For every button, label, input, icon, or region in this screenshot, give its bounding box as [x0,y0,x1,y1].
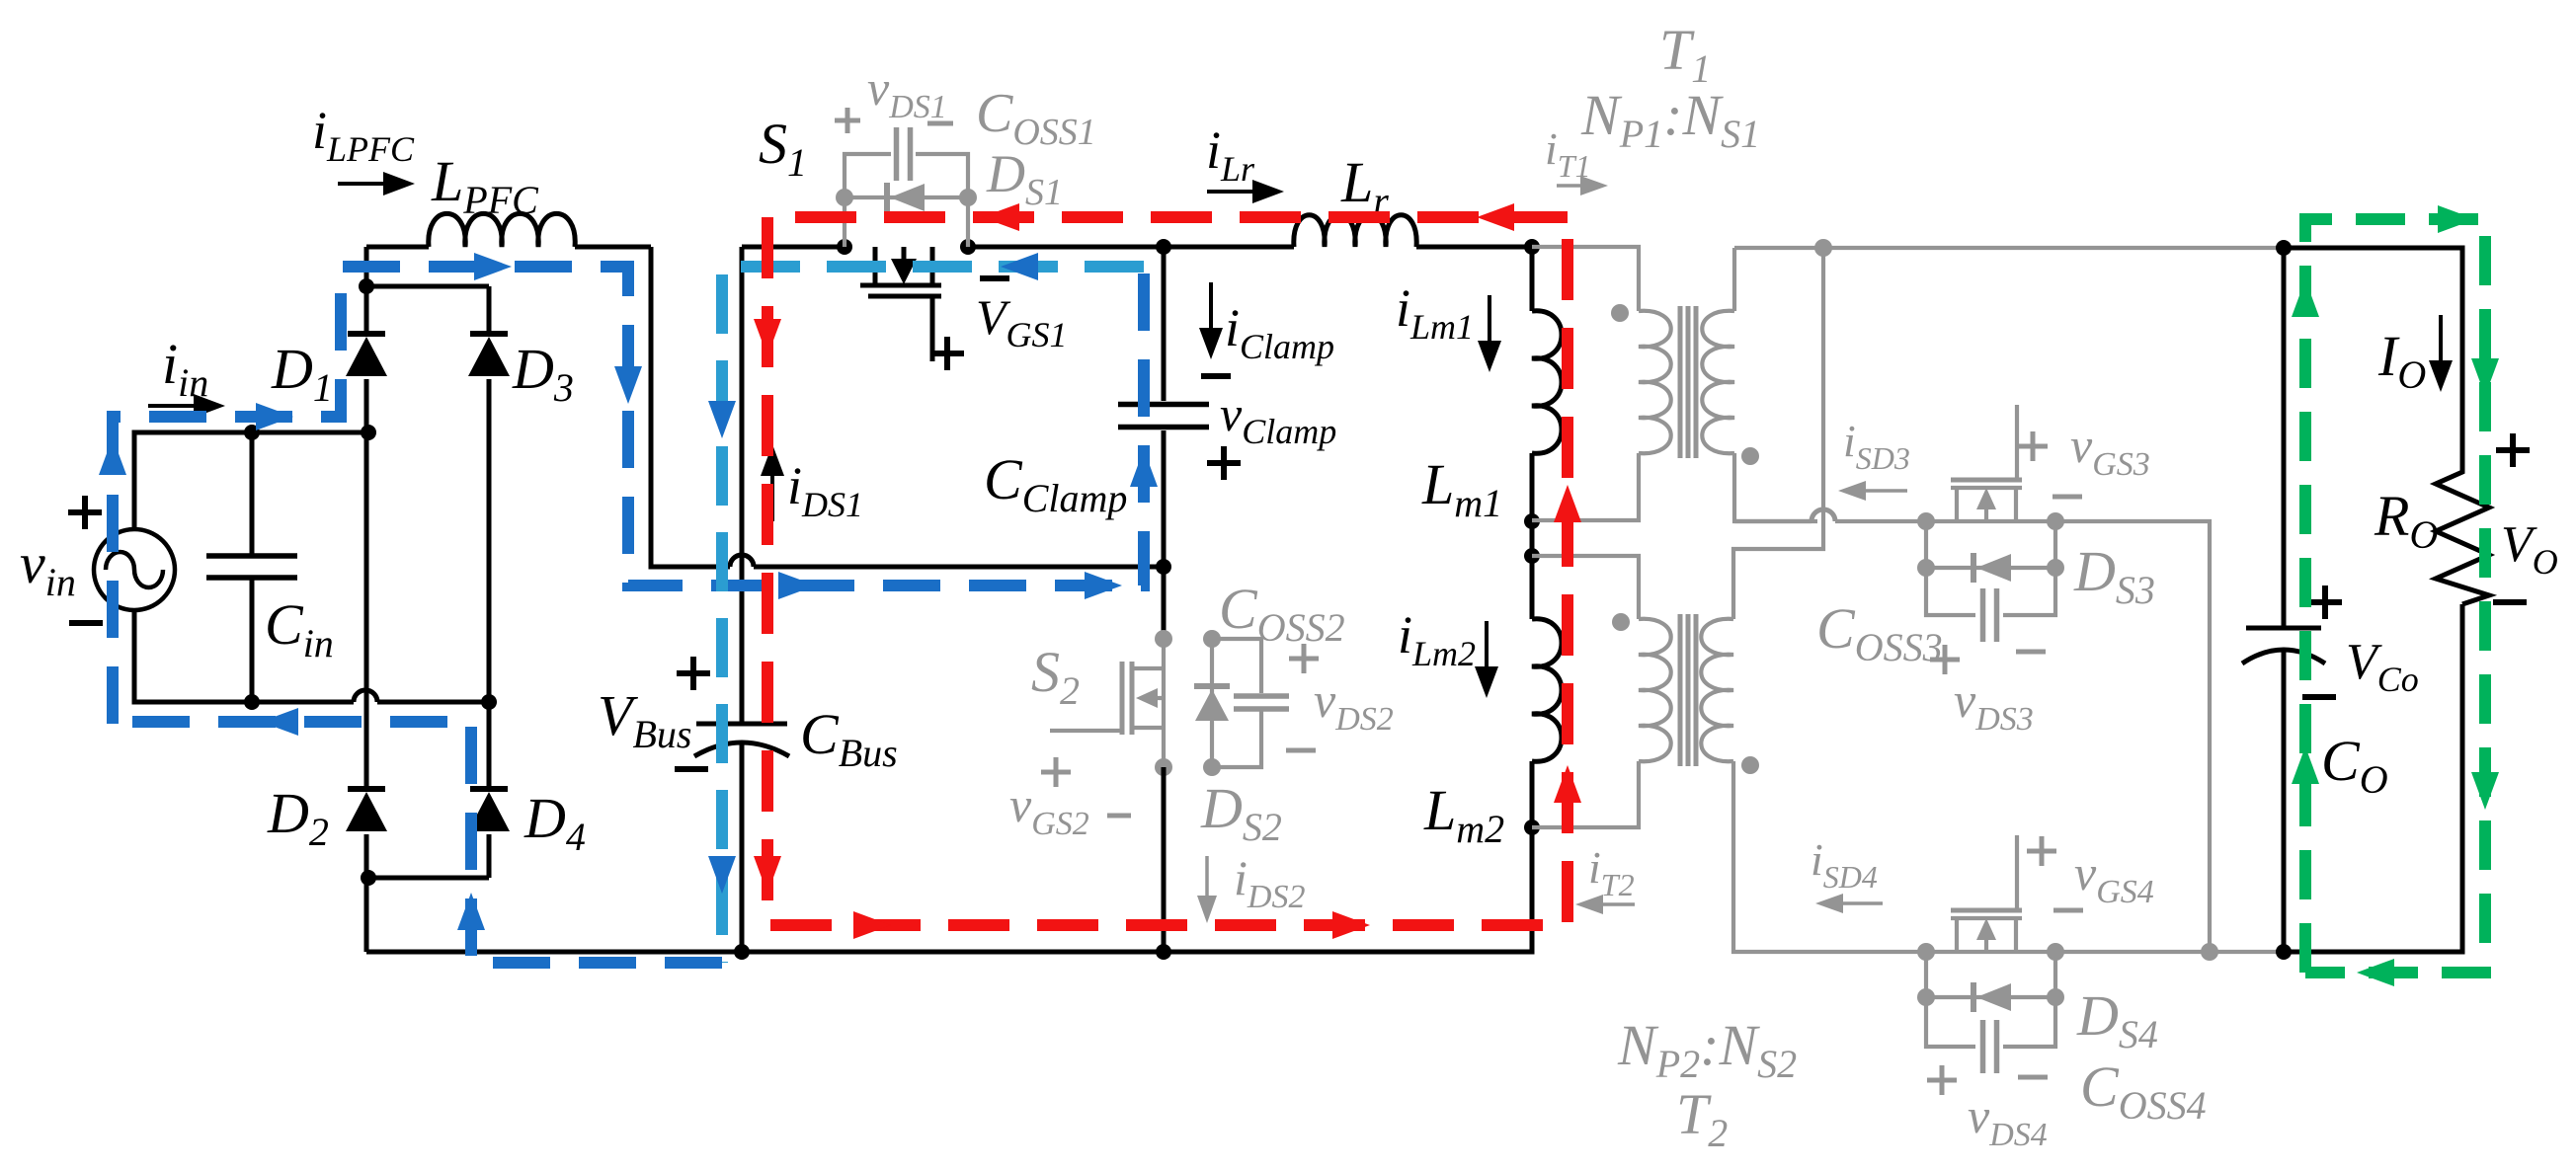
minus sign of vGS3 [2053,495,2082,500]
junction dot Cin top [244,425,260,440]
plus sign of VGS1 [930,337,964,370]
label DS4 [2076,983,2158,1056]
label vin [20,531,76,604]
junction dot Lm2 bottom [1524,820,1540,835]
label VBus [598,683,691,756]
current arrow iT2 [1575,895,1635,914]
junction dot DS2 bottom [1203,758,1221,776]
label NP2:NS2 [1617,1013,1797,1086]
current arrow iDS1 [761,444,784,521]
label iLm2 [1398,605,1476,673]
diode DS2 [1194,639,1230,767]
current arrow iSD3 [1838,481,1907,501]
junction dot DS4 left [1917,988,1935,1006]
wire Lm1 to Lm2 [1530,521,1535,556]
label S1 [759,112,807,185]
label iT1 [1545,123,1591,184]
minus sign of VBus [675,766,708,772]
minus sign of vDS1 [927,121,953,126]
wire vin top to bridge node A [134,432,368,529]
junction dot output top [2276,240,2292,256]
plus sign of vDS4 [1927,1065,1957,1095]
junction dot Lm1 bottom [1524,513,1540,529]
minus sign of vDS3 [2016,650,2046,655]
minus sign of vDS2 [1286,748,1316,753]
current arrow iLm1 [1478,295,1501,372]
junction dot bridge top rail [359,278,374,294]
blue arrow down along CBus lower [708,856,736,894]
wire output top to Ro [2284,248,2462,462]
junction dot S1 drain [837,239,852,255]
label vDS3 [1954,672,2034,738]
wire T2 secondary top [1733,248,1823,619]
label VGS1 [976,289,1068,354]
label COSS2 [1219,577,1345,650]
junction dot Lr to Lm1 [1524,239,1540,255]
label Co [2321,729,2388,802]
junction dot S4 left [1917,943,1935,961]
polarity dot T2 primary [1612,613,1630,631]
label COSS4 [2080,1054,2207,1128]
diode DS4 [1926,952,2055,1012]
plus sign of vGS3 [2018,431,2048,461]
capacitor Cin [206,432,297,702]
red arrow right on bottom rail [853,911,891,939]
label vGS2 [1009,777,1089,842]
junction dot CBus bottom [734,944,750,960]
label Ro [2374,484,2438,557]
inductor Lr [1164,215,1532,247]
red arrow left near S1 [982,203,1019,231]
minus sign of Vo [2493,599,2527,605]
green arrow up at Co bottom [2292,746,2319,784]
current arrow iLPFC [338,172,415,195]
junction dot rectifier bus bottom [2201,943,2218,961]
junction dot bottom rail at CClamp branch [1156,944,1171,960]
label Cin [265,592,334,665]
blue current path (through S1 down CBus) [722,267,1144,963]
wire vin bottom to node B (hops over D1-D2 branch) [134,610,489,702]
inductor Lm1 [1532,247,1562,521]
junction dot DS3 right [2047,559,2064,577]
label Io [2377,324,2426,397]
label D2 [267,781,329,854]
red arrow down after S1 [754,319,781,356]
wire DS1 connections [845,197,968,247]
plus sign of VCo [2308,585,2342,619]
label LPFC [431,149,539,222]
junction dot node B (vin-, D3/D4) [481,694,497,710]
label T2 [1676,1082,1728,1155]
inductor Lm2 [1532,556,1562,827]
red current path (resonant loop) [767,217,1568,925]
junction dot S2 drain [1155,630,1172,648]
capacitor COSS4 [1926,997,2055,1073]
green current path (output loop) [2305,219,2485,973]
minus sign of VGS1 [980,275,1009,281]
current arrow iDS2 [1197,856,1217,923]
junction dot S2 source [1155,758,1172,776]
diode D4 [468,702,510,878]
junction dot S4 right [2047,943,2064,961]
label DS1 [986,144,1063,213]
minus sign of vGS4 [2053,908,2083,913]
label vGS3 [2070,418,2150,483]
label D4 [523,786,586,859]
junction dot D2 bottom [361,870,376,886]
transformer T2 primary winding [1532,556,1671,827]
wire S4 row [1926,950,2055,954]
label T1 [1659,18,1711,91]
current arrow iLm2 [1475,621,1498,698]
junction dot CClamp top [1156,239,1171,255]
polarity dot T1 primary [1611,304,1629,322]
minus sign of vDS4 [2018,1075,2048,1080]
current arrow iT1 [1557,176,1608,195]
junction dot secondary top [1814,239,1832,257]
blue arrow left through S1 [1001,253,1038,280]
label COSS1 [976,83,1096,153]
capacitor COSS3 [1926,568,2055,642]
wire S3 row (hops over T2 feed) [1734,509,1926,521]
blue arrow down after LPFC [614,366,642,404]
diode DS1 [887,183,925,212]
capacitor COSS2 [1212,639,1289,767]
junction dot DS4 right [2047,988,2064,1006]
capacitor COSS1 [845,127,968,197]
transformer T1 core [1680,306,1696,458]
plus sign of Vo [2496,433,2530,467]
wire S1 drain side [742,245,845,250]
diode D2 [346,432,387,878]
label vClamp [1220,386,1336,451]
label iSD4 [1811,834,1878,895]
junction dot output bottom [2276,944,2292,960]
polarity dot T2 secondary [1741,756,1759,774]
wire Lm2 bottom to rail [1526,827,1532,952]
wire bridge top rail [366,284,489,289]
junction dot DS2 top [1203,630,1221,648]
minus sign of VCo [2302,694,2336,700]
wire D2/D4 bottoms join [366,876,489,881]
label iClamp [1225,298,1334,366]
junction dot node A (vin+, D1/D2) [361,425,376,440]
junction dot Cin bottom [244,694,260,710]
plus sign of vGS2 [1041,757,1071,787]
blue arrow right above LPFC [474,253,512,280]
label Vo [2501,516,2558,582]
label DS3 [2073,539,2155,612]
red arrow left near Lr [1477,203,1514,231]
transistor S1 (MOSFET) [860,247,941,361]
red arrow up along Lm2 [1554,765,1581,803]
junction dot S3 left [1917,512,1935,530]
transformer T1 primary winding [1532,247,1671,520]
green arrow left on bottom [2357,959,2394,986]
minus sign of vin [69,620,103,626]
capacitor Co [2242,248,2325,952]
label NP1:NS1 [1580,83,1760,156]
label vDS1 [867,60,947,125]
red arrow right before Lm2 [1332,911,1370,939]
junction dot S1 source [960,239,976,255]
blue arrow up along CClamp [1130,449,1158,487]
minus sign of iClamp [1201,373,1231,379]
minus sign of vGS2 [1107,814,1131,819]
label D1 [271,337,333,410]
wire S2 to bottom rail [1162,767,1167,952]
wire T1 secondary to output+ [1734,246,2284,250]
plus sign of vin [68,496,102,529]
plus sign of vDS1 [835,108,860,133]
transformer T1 secondary winding [1702,248,1817,521]
current arrow iSD4 [1815,894,1883,913]
junction dot DS3 left [1917,559,1935,577]
wire S3 to output rectifier bus [2055,521,2210,952]
wire bottom rail [366,950,1532,955]
transformer T2 core [1680,614,1696,766]
blue arrow right near vin [256,403,293,430]
junction dot S3 right [2047,512,2064,530]
blue arrow left on D2 row [261,708,298,736]
transistor S4 (MOSFET) [1951,835,2022,952]
diode D1 [346,286,387,432]
wire S1 source to CClamp [968,245,1164,250]
label vDS4 [1968,1088,2048,1153]
blue arrow up at vin [99,437,126,475]
wire LPFC to switch node (hops over CBus branch) [651,247,1165,567]
plus sign of VBus [677,657,710,690]
label CClamp [984,447,1127,520]
label vDS2 [1314,672,1394,738]
label COSS3 [1816,596,1943,669]
capacitor CBus [694,247,789,952]
plus sign of vDS3 [1930,645,1960,674]
junction dot Lm2 top [1524,548,1540,564]
wire CClamp to S2 [1162,567,1167,640]
transformer T2 secondary winding [1701,619,1926,952]
blue current path (return via D4) [113,722,722,963]
diode DS3 [1926,521,2055,583]
junction dot DS1 left [836,189,853,206]
plus sign of vClamp [1207,446,1241,480]
blue arrow right before clamp [1085,572,1122,599]
blue arrow down along CBus upper [708,401,736,438]
green arrow right on top [2438,205,2475,233]
wire S4 to output bus [2055,950,2282,954]
blue arrow right on switch feed [778,572,816,599]
label iLPFC [312,101,415,169]
green arrow down to Ro [2471,358,2499,396]
current arrow Io [2429,315,2453,392]
label iin [162,332,208,405]
transistor S2 (MOSFET) [1050,639,1164,767]
current arrow iLr [1207,180,1284,203]
polarity dot T1 secondary [1741,447,1759,465]
wire Ro to output bottom [2284,604,2462,952]
label VCo [2346,634,2419,699]
green arrow down after Ro [2471,772,2499,810]
blue arrow up through D4 [457,893,485,930]
label S2 [1031,640,1080,713]
label vGS4 [2074,845,2154,910]
inductor LPFC [366,213,651,286]
junction dot switch node [1156,559,1171,575]
label iLm1 [1396,278,1474,347]
label iDS2 [1234,850,1305,915]
label D3 [512,337,574,410]
plus sign of vDS2 [1289,644,1319,673]
capacitor CClamp [1118,247,1209,567]
label CBus [800,702,898,775]
label Lm1 [1421,452,1502,525]
transistor S3 (MOSFET) [1926,405,2055,521]
red arrow down near CBus bottom [754,856,781,894]
wire bridge to bottom rail [364,878,369,952]
label DS2 [1200,776,1282,849]
label Lr [1340,150,1389,223]
label iSD3 [1843,416,1910,476]
diode D3 [468,286,510,702]
label iLr [1206,120,1255,189]
current arrow iin [148,394,225,418]
label iT2 [1588,842,1635,902]
blue current path (input loop left) [113,267,1144,724]
junction dot DS1 right [959,189,977,206]
label Lm2 [1423,778,1504,851]
current arrow iClamp [1199,282,1223,359]
label iDS1 [787,456,863,524]
voltage source vin (AC) [94,529,175,610]
green arrow up at Co top [2292,279,2319,317]
red arrow up along Lm1 [1554,485,1581,522]
resistor Ro [2436,462,2489,604]
plus sign of vGS4 [2027,836,2056,866]
